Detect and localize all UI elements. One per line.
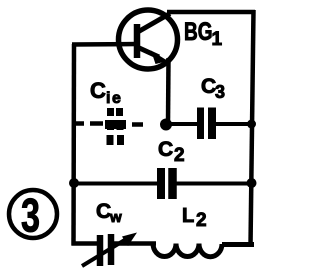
node: emitter junction xyxy=(160,119,172,131)
svg-text:3: 3 xyxy=(215,82,225,102)
wire: base wire from left rail to transistor xyxy=(72,42,137,47)
wire: bottom wire right segment xyxy=(222,242,254,247)
svg-text:1: 1 xyxy=(212,29,223,50)
wire: bottom wire middle segment xyxy=(113,241,156,246)
node: C3 right junction on right rail xyxy=(247,120,256,129)
svg-text:C: C xyxy=(90,78,106,103)
label C2 xyxy=(158,138,185,166)
wire: right vertical rail xyxy=(251,10,254,246)
label Cie xyxy=(90,78,122,107)
wire: emitter down wire xyxy=(166,58,171,124)
svg-text:2: 2 xyxy=(196,210,207,231)
capacitor Cie (dashed, internal capacitance) xyxy=(74,108,143,145)
figure number 3 (circled) xyxy=(9,189,57,242)
svg-text:C: C xyxy=(96,200,111,223)
svg-text:L: L xyxy=(182,205,194,227)
capacitor C3 xyxy=(170,108,252,140)
svg-text:BG: BG xyxy=(184,18,213,46)
svg-text:C: C xyxy=(201,75,216,98)
label L2 xyxy=(182,205,207,231)
svg-text:3: 3 xyxy=(21,189,40,242)
svg-text:w: w xyxy=(109,209,122,226)
wire: left vertical rail xyxy=(71,44,76,246)
svg-text:C: C xyxy=(158,138,173,161)
node: C2 right junction on right rail xyxy=(247,178,257,188)
label Cw xyxy=(96,200,122,226)
variable capacitor Cw xyxy=(82,233,137,267)
transistor BG1 xyxy=(119,10,178,69)
node: C2 left junction on left rail xyxy=(69,178,79,188)
wire: top wire (collector to right rail) xyxy=(167,10,255,15)
capacitor C2 xyxy=(73,168,252,199)
label BG1 xyxy=(184,18,223,50)
svg-text:ie: ie xyxy=(106,90,122,107)
wire: bottom wire left segment xyxy=(72,241,99,246)
label C3 xyxy=(201,75,225,102)
inductor L2 xyxy=(153,244,222,257)
svg-text:2: 2 xyxy=(174,145,185,166)
